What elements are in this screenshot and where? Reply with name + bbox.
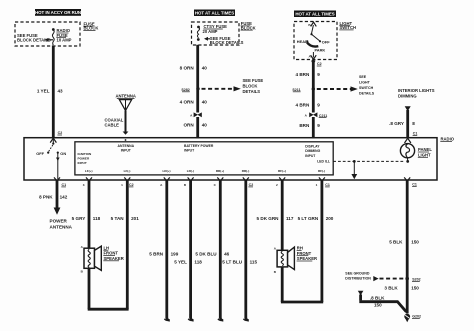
svg-text:INPUT: INPUT xyxy=(305,154,316,158)
connector terminal pin B (LR- wire) xyxy=(184,177,194,187)
svg-text:POWER: POWER xyxy=(78,157,90,161)
svg-text:ANTENNA: ANTENNA xyxy=(118,144,135,148)
svg-text:ORN: ORN xyxy=(183,123,194,128)
node DISPLAY DIMMING INPUT xyxy=(305,144,320,157)
svg-text:RR(-): RR(-) xyxy=(242,169,250,173)
svg-text:PARK: PARK xyxy=(315,47,326,52)
svg-text:INTERIOR LIGHTS: INTERIOR LIGHTS xyxy=(398,88,435,93)
svg-text:LIGHT: LIGHT xyxy=(359,81,371,85)
svg-text:SEE FUSE: SEE FUSE xyxy=(243,78,264,83)
speaker LH FRONT SPEAKER xyxy=(81,245,124,273)
svg-text:40: 40 xyxy=(202,100,208,105)
wire PNK 142 (power antenna) xyxy=(39,180,68,215)
svg-text:DETAILS: DETAILS xyxy=(359,92,375,96)
wire LT BLU 115 (RR-) xyxy=(222,180,257,320)
svg-text:C2: C2 xyxy=(249,183,254,187)
radio U1 outer box xyxy=(24,137,455,180)
fuse F1 RADIO FUSE 10 AMP xyxy=(52,28,72,45)
svg-text:C1: C1 xyxy=(412,183,417,187)
svg-text:1: 1 xyxy=(316,183,318,187)
radio U1 inner box xyxy=(75,142,333,175)
svg-text:C211: C211 xyxy=(319,114,327,118)
wire (dashed) S211 to see light switch details xyxy=(317,75,375,96)
connector C1 terminal (ground wire) xyxy=(404,177,417,186)
wire ORN 40 (ctsy fuse, upper) xyxy=(180,45,208,89)
wire BLK 150 (branch from ground arrow) xyxy=(358,291,407,312)
svg-text:LF(+): LF(+) xyxy=(85,169,93,173)
svg-text:5 BRN: 5 BRN xyxy=(149,251,163,256)
svg-text:118: 118 xyxy=(93,216,101,221)
svg-text:40: 40 xyxy=(202,65,208,70)
wire YEL 43 (radio fuse to radio C2) xyxy=(37,46,63,139)
node FUSE BLOCK label (left) xyxy=(83,21,98,30)
svg-text:S282: S282 xyxy=(181,88,189,92)
svg-text:FRONT: FRONT xyxy=(104,251,119,256)
svg-text:INPUT: INPUT xyxy=(78,161,87,165)
svg-text:43: 43 xyxy=(58,88,64,93)
svg-text:DISTRIBUTION: DISTRIBUTION xyxy=(345,277,371,281)
svg-text:5 DK BLU: 5 DK BLU xyxy=(195,251,217,256)
svg-text:5 LT BLU: 5 LT BLU xyxy=(222,259,243,264)
node IGNITION POWER INPUT xyxy=(78,152,93,165)
svg-text:LF(-): LF(-) xyxy=(124,169,131,173)
label HOT IN ACCY OR RUN xyxy=(35,9,81,16)
connector terminal pin 2 (RF+ wire) xyxy=(276,177,285,187)
svg-text:5 BLK: 5 BLK xyxy=(389,239,403,244)
svg-text:8 ORN: 8 ORN xyxy=(180,65,195,70)
connector C1 terminal (power antenna wire, radio bottom) xyxy=(54,177,66,187)
svg-text:LH: LH xyxy=(104,245,110,250)
wire GRY 118 (LF+) xyxy=(72,180,101,248)
wire BRN 199 (LR+) xyxy=(149,180,178,320)
svg-text:5 GRY: 5 GRY xyxy=(72,216,86,221)
svg-text:9: 9 xyxy=(317,72,320,77)
connector C1 (radio top right) xyxy=(405,132,418,143)
svg-text:46: 46 xyxy=(224,251,230,256)
svg-text:DIMMING: DIMMING xyxy=(398,94,417,99)
node LIGHT SWITCH label xyxy=(339,21,356,30)
splice S282 xyxy=(181,87,199,92)
svg-text:HOT AT ALL TIMES: HOT AT ALL TIMES xyxy=(195,11,234,16)
wire LH speaker return loop xyxy=(88,268,129,309)
svg-text:LR(-): LR(-) xyxy=(187,169,194,173)
svg-text:LR(+): LR(+) xyxy=(163,169,171,173)
svg-text:3 BLK: 3 BLK xyxy=(384,285,398,290)
svg-text:BRN: BRN xyxy=(299,123,310,128)
wire DK BLU 46 (RR+) xyxy=(195,180,229,320)
connector C2 (radio top left) xyxy=(50,131,62,142)
svg-text:4 ORN: 4 ORN xyxy=(180,100,195,105)
splice S202 xyxy=(405,277,420,282)
svg-text:5 TAN: 5 TAN xyxy=(111,216,125,221)
svg-text:INPUT: INPUT xyxy=(121,149,132,153)
svg-text:150: 150 xyxy=(374,303,382,308)
node FUSE BLOCK label (middle) xyxy=(241,21,256,30)
svg-text:ANTENNA: ANTENNA xyxy=(50,225,73,230)
connector terminal pin A (LR+ wire) xyxy=(160,177,170,187)
wire BLK 150 (below S202) xyxy=(384,285,419,290)
svg-text:118: 118 xyxy=(194,259,202,264)
svg-text:CABLE: CABLE xyxy=(105,122,120,127)
connector A (in-line, orange wire) xyxy=(190,112,202,117)
svg-text:RF(+): RF(+) xyxy=(278,169,286,173)
svg-text:INPUT: INPUT xyxy=(184,149,195,153)
connector terminal pin C (RR+ wire) xyxy=(214,177,224,187)
svg-text:5 LT GRN: 5 LT GRN xyxy=(298,216,319,221)
svg-text:DISPLAY: DISPLAY xyxy=(305,144,320,148)
svg-text:C1: C1 xyxy=(413,132,418,136)
svg-text:3: 3 xyxy=(83,183,85,187)
fuse block box (radio fuse) xyxy=(15,22,80,46)
svg-text:5 DK GRN: 5 DK GRN xyxy=(257,216,280,221)
lamp panel light (inside radio) xyxy=(400,144,432,158)
svg-text:RR(+): RR(+) xyxy=(216,169,224,173)
svg-text:4 BRN: 4 BRN xyxy=(296,72,310,77)
svg-text:40: 40 xyxy=(202,123,208,128)
svg-text:C2: C2 xyxy=(58,131,63,135)
wire BLK 150 (radio ground) xyxy=(389,180,419,314)
connector C1 terminal pin 1 (RF- wire) xyxy=(316,177,330,187)
connector C2 terminal (RR- wire) xyxy=(243,177,253,187)
fuse F2 CTSY FUSE 20 AMP xyxy=(197,24,227,41)
wire coaxial cable (antenna to radio) xyxy=(105,111,129,141)
svg-text:SEE GROUND: SEE GROUND xyxy=(345,271,370,275)
svg-text:RF(-): RF(-) xyxy=(318,169,325,173)
wire (dashed) see ground distribution xyxy=(345,271,404,281)
svg-text:SPEAKER: SPEAKER xyxy=(297,256,317,261)
wire dashed LED ILL to panel light xyxy=(333,158,409,163)
svg-text:10 AMP: 10 AMP xyxy=(57,38,72,43)
svg-text:200: 200 xyxy=(326,216,334,221)
svg-text:LED ILL: LED ILL xyxy=(317,160,330,164)
svg-text:20 AMP: 20 AMP xyxy=(203,29,218,34)
svg-text:POWER: POWER xyxy=(50,219,68,224)
wire GRY 8 (dimming feed) xyxy=(389,106,415,138)
wire BRN 9 (light switch, upper) xyxy=(296,60,321,89)
wire DK GRN 117 (RF+) xyxy=(257,180,294,251)
svg-text:DIMMING: DIMMING xyxy=(305,149,320,153)
svg-text:BLOCK DETAILS: BLOCK DETAILS xyxy=(210,40,244,45)
svg-text:201: 201 xyxy=(131,216,139,221)
svg-text:2: 2 xyxy=(276,183,278,187)
label HOT AT ALL TIMES (right) xyxy=(294,11,336,18)
svg-text:1 YEL: 1 YEL xyxy=(37,88,50,93)
svg-text:SWITCH: SWITCH xyxy=(359,86,374,90)
svg-text:OFF: OFF xyxy=(36,151,44,156)
svg-text:DETAILS: DETAILS xyxy=(243,89,261,94)
ground (inside radio, dimming return) xyxy=(351,160,357,179)
svg-text:ON: ON xyxy=(60,151,66,156)
wire ORN 40 (ctsy fuse, lower) xyxy=(183,117,207,138)
ground G202 xyxy=(404,314,421,323)
svg-text:150: 150 xyxy=(411,285,419,290)
svg-text:5 YEL: 5 YEL xyxy=(174,259,187,264)
svg-text:RADIO: RADIO xyxy=(441,137,455,142)
wire ORN 40 (ctsy fuse, middle) xyxy=(180,89,208,113)
svg-text:117: 117 xyxy=(286,216,294,221)
node POWER ANTENNA xyxy=(50,219,73,230)
node ANTENNA INPUT xyxy=(118,144,135,153)
connector C2 (below light switch) xyxy=(311,61,322,67)
splice S211 xyxy=(292,87,315,92)
svg-text:HOT IN ACCY OR RUN: HOT IN ACCY OR RUN xyxy=(35,10,81,15)
svg-text:C2: C2 xyxy=(317,62,322,66)
wire BRN 9 (light switch, lower) xyxy=(299,117,320,138)
svg-text:199: 199 xyxy=(171,251,179,256)
switch SW1 light switch box xyxy=(294,22,337,60)
svg-text:C1: C1 xyxy=(62,183,67,187)
svg-text:S202: S202 xyxy=(412,278,420,282)
connector C2 terminal pin 1 (LF- wire) xyxy=(121,177,134,187)
connector C211 (in-line, brown wire) xyxy=(305,112,328,117)
svg-text:BLOCK: BLOCK xyxy=(243,84,258,89)
svg-text:1: 1 xyxy=(121,183,123,187)
fuse block box (ctsy fuse) xyxy=(192,22,244,45)
label HOT AT ALL TIMES (middle) xyxy=(194,10,235,17)
svg-text:BATTERY POWER: BATTERY POWER xyxy=(184,144,214,148)
svg-text:9: 9 xyxy=(317,103,320,108)
svg-text:.8 GRY: .8 GRY xyxy=(389,121,404,126)
svg-text:OFF: OFF xyxy=(322,40,330,45)
svg-text:G202: G202 xyxy=(412,315,421,319)
svg-text:IGNITION: IGNITION xyxy=(78,152,93,156)
svg-text:PANEL: PANEL xyxy=(418,147,432,152)
node BATTERY POWER INPUT xyxy=(184,144,214,153)
node speaker output terminals LF(+) LF(-) LR(+) LR(-) RR(+) RR(-) RF(+) RF(-) xyxy=(85,169,325,173)
svg-text:.8 BLK: .8 BLK xyxy=(370,295,385,300)
svg-text:ANTENNA: ANTENNA xyxy=(115,94,135,99)
svg-text:115: 115 xyxy=(250,259,258,264)
wire YEL 118 (LR-) xyxy=(174,180,202,320)
node LED ILL xyxy=(317,160,330,164)
svg-text:SPEAKER: SPEAKER xyxy=(104,256,124,261)
wire LT GRN 200 (RF-) xyxy=(298,180,334,302)
svg-text:S211: S211 xyxy=(292,88,300,92)
wire RH speaker return loop xyxy=(281,267,323,302)
speaker RH FRONT SPEAKER xyxy=(274,246,317,274)
svg-text:SEE: SEE xyxy=(359,75,367,79)
svg-text:RH: RH xyxy=(297,246,303,251)
wire TAN 201 (LF-) xyxy=(111,180,140,309)
svg-text:HOT AT ALL TIMES: HOT AT ALL TIMES xyxy=(295,12,334,17)
node INTERIOR LIGHTS DIMMING xyxy=(398,88,435,98)
svg-text:8 PNK: 8 PNK xyxy=(39,194,53,199)
svg-text:FRONT: FRONT xyxy=(297,251,312,256)
connector terminal pin 3 (LF+ wire) xyxy=(83,177,92,187)
antenna xyxy=(115,94,135,111)
svg-text:142: 142 xyxy=(60,194,68,199)
svg-text:150: 150 xyxy=(411,239,419,244)
svg-text:4 BRN: 4 BRN xyxy=(296,103,310,108)
wire BRN 9 (light switch, middle) xyxy=(296,89,321,113)
wire (dashed) S282 to see fuse block details xyxy=(202,78,264,94)
switch SW2 radio on/off (inside radio) xyxy=(36,138,66,179)
svg-text:C1: C1 xyxy=(325,183,330,187)
svg-text:C2: C2 xyxy=(129,183,134,187)
svg-text:8: 8 xyxy=(412,121,415,126)
svg-text:LIGHT: LIGHT xyxy=(418,153,431,158)
svg-text:9: 9 xyxy=(317,123,320,128)
